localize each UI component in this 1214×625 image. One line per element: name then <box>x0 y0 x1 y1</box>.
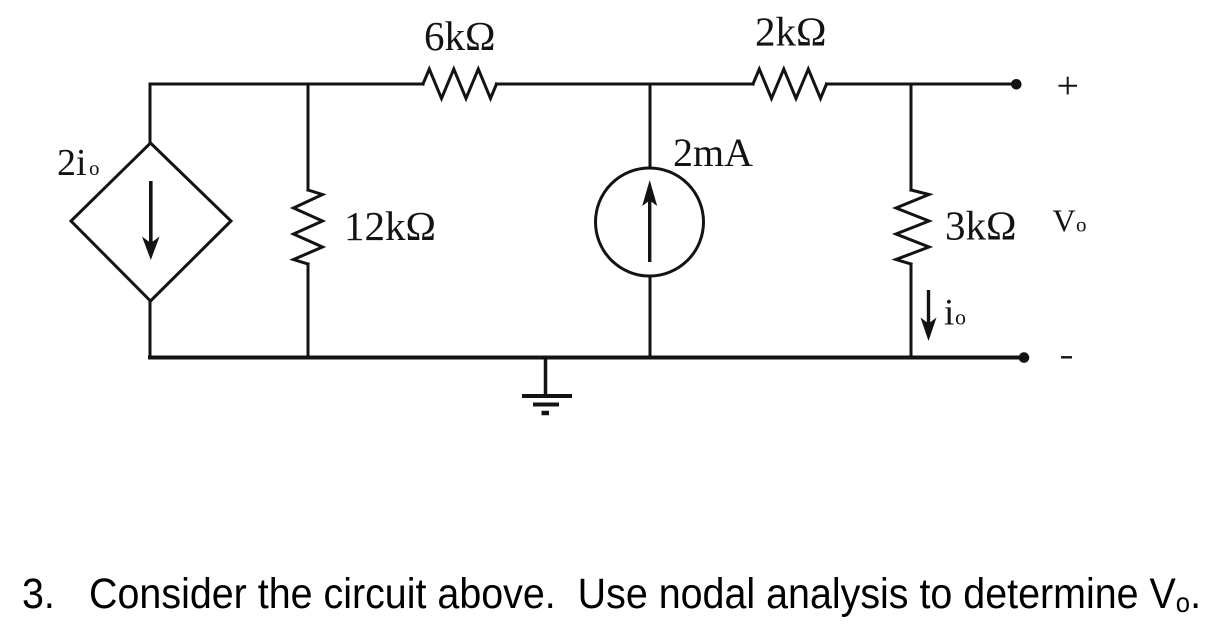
svg-text:o: o <box>1076 213 1087 237</box>
minus sign <box>1061 356 1072 358</box>
ground bar 2 <box>533 403 559 407</box>
svg-text:6kΩ: 6kΩ <box>424 13 495 59</box>
wire left branch lower <box>149 301 152 358</box>
wire right branch lower <box>910 264 913 358</box>
ground bar 1 <box>522 394 572 398</box>
wire top-right segment <box>827 83 1017 86</box>
svg-text:o: o <box>955 305 966 330</box>
resistor R3 12k zigzag <box>294 190 323 264</box>
node terminal dot top-right <box>1011 79 1022 90</box>
wire top-left segment <box>150 83 423 86</box>
svg-text:2mA: 2mA <box>673 130 753 175</box>
wire bottom rail <box>150 356 1024 360</box>
wire 12k branch upper <box>307 84 310 190</box>
problem statement text <box>22 573 1201 616</box>
arrow inside circle (2mA source) <box>642 180 657 262</box>
arrow inside diamond (2io source) <box>142 181 160 260</box>
svg-text:2kΩ: 2kΩ <box>755 9 826 55</box>
dependent source U1 diamond <box>71 143 231 301</box>
plus sign <box>1059 77 1078 95</box>
wire middle branch lower <box>649 276 652 358</box>
node terminal dot bottom-right <box>1019 352 1030 363</box>
svg-text:i: i <box>944 293 954 334</box>
svg-text:V: V <box>1053 203 1076 239</box>
svg-text:3kΩ: 3kΩ <box>945 203 1016 249</box>
wire top-middle segment <box>497 83 754 86</box>
svg-text:12kΩ: 12kΩ <box>344 203 436 249</box>
wire right branch upper <box>910 84 913 190</box>
ground bar 3 <box>542 411 550 416</box>
wire middle branch upper <box>649 84 652 168</box>
resistor R1 6k zigzag <box>423 69 497 99</box>
svg-text:o: o <box>89 156 100 180</box>
wire 12k branch lower <box>307 264 310 358</box>
resistor R4 3k zigzag <box>896 190 929 264</box>
wire left branch upper <box>149 84 152 143</box>
current source I1 circle <box>596 168 704 276</box>
io arrow <box>921 290 937 341</box>
ground stem <box>544 358 548 395</box>
svg-text:2i: 2i <box>57 142 87 184</box>
resistor R2 2k zigzag <box>753 69 827 99</box>
